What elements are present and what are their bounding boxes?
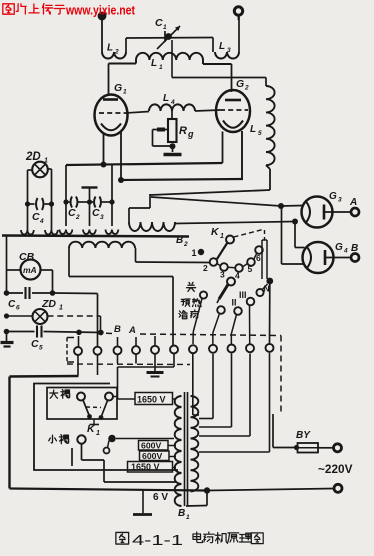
K1 dashed link bbox=[234, 230, 265, 241]
label C6 bbox=[8, 299, 20, 312]
wire top feed to L5 bbox=[172, 78, 266, 87]
wire III to terminal 10 bbox=[249, 305, 251, 344]
high-range pole B bbox=[105, 393, 113, 401]
inductor L3 bbox=[215, 15, 239, 59]
label II bbox=[232, 298, 237, 308]
triode G1 envelope bbox=[95, 95, 128, 136]
B1 secondary taps bbox=[168, 399, 176, 468]
node N junction bbox=[266, 278, 273, 285]
meter leads bbox=[7, 270, 53, 291]
svg-text:1650 V: 1650 V bbox=[131, 462, 160, 472]
wire B2 lower right lead bbox=[136, 248, 210, 263]
terminal 2 bbox=[94, 347, 102, 355]
label 220V bbox=[318, 462, 353, 476]
label N bbox=[264, 284, 270, 294]
wire left main down bbox=[10, 376, 79, 489]
label 6V bbox=[153, 492, 168, 503]
svg-text:4: 4 bbox=[235, 271, 240, 281]
label L1 bbox=[151, 58, 163, 71]
K1 wiper pivot bbox=[226, 236, 234, 244]
svg-text:6 V: 6 V bbox=[153, 492, 168, 503]
capacitor C6 bbox=[7, 287, 53, 299]
svg-text:mA: mA bbox=[23, 265, 37, 275]
svg-text:5: 5 bbox=[248, 264, 253, 274]
wire antenna top bbox=[126, 37, 213, 40]
label L5 bbox=[250, 124, 262, 137]
svg-text:4: 4 bbox=[170, 99, 175, 106]
label low-range bbox=[49, 435, 69, 444]
svg-text:C: C bbox=[155, 17, 163, 29]
antenna terminal (left) bbox=[98, 12, 107, 52]
svg-text:B: B bbox=[114, 324, 121, 335]
mains terminal upper bbox=[334, 444, 342, 452]
terminal 1 bbox=[74, 347, 82, 355]
G3 lead bbox=[324, 211, 351, 213]
transformer B1 core bbox=[185, 392, 188, 506]
capacitor C3 bbox=[90, 197, 113, 208]
G1 cathode lead right bbox=[120, 131, 122, 180]
wire treat to terminal 8 bbox=[213, 314, 220, 345]
high-range pole A bbox=[77, 393, 85, 401]
svg-text:ZD: ZD bbox=[41, 298, 56, 310]
contact 3 bbox=[220, 263, 228, 279]
wire node to G3 bbox=[151, 197, 281, 206]
wire filament rail upper bbox=[66, 163, 223, 165]
low-range pole B bbox=[108, 435, 174, 443]
fuse right lead bbox=[318, 447, 333, 449]
G1 grid (dashed) bbox=[99, 112, 126, 114]
svg-text:A: A bbox=[349, 197, 357, 208]
wire B2 upper to anode line bbox=[175, 222, 295, 224]
grounded shield bar bbox=[82, 188, 98, 203]
contact III bbox=[247, 298, 255, 306]
svg-text:2: 2 bbox=[75, 214, 80, 221]
terminal 3 bbox=[114, 346, 122, 354]
label B2 bbox=[176, 235, 188, 248]
node C4 right bbox=[49, 201, 54, 206]
node meter right bbox=[50, 290, 56, 296]
svg-text:2: 2 bbox=[114, 49, 119, 56]
wire N2 link bbox=[262, 284, 268, 290]
label G3 bbox=[329, 191, 342, 204]
C4 loop top bbox=[28, 169, 52, 170]
svg-text:1: 1 bbox=[163, 24, 167, 31]
contact N2 bbox=[256, 289, 263, 296]
wire junction down to G4 top bbox=[295, 222, 305, 248]
label preheat bbox=[181, 298, 201, 306]
capacitor C1 (variable) bbox=[157, 26, 180, 49]
wire B2 lower left lead bbox=[69, 248, 173, 277]
resistor Rg bbox=[168, 119, 177, 142]
high-range pole B arm bbox=[99, 401, 108, 420]
label off (guan) bbox=[187, 282, 196, 291]
inductor L4 bbox=[149, 104, 195, 111]
label L3 bbox=[219, 41, 231, 54]
terminal B bbox=[351, 254, 359, 262]
svg-text:5: 5 bbox=[258, 130, 262, 137]
wire junction down to G4 bbox=[282, 206, 304, 264]
label K1 (power) bbox=[87, 423, 100, 437]
capacitor C5 bbox=[7, 326, 102, 338]
svg-text:C: C bbox=[68, 207, 76, 219]
terminal 6 stem bbox=[118, 354, 175, 399]
node bottom rail junction bbox=[204, 487, 210, 493]
label K1 bbox=[211, 226, 224, 240]
terminal 10 stem bbox=[199, 354, 250, 437]
terminal 4 bbox=[132, 346, 140, 354]
dashed lower line bbox=[67, 363, 190, 366]
node G3 feed junction bbox=[278, 203, 284, 209]
svg-text:600V: 600V bbox=[141, 441, 161, 451]
svg-text:1: 1 bbox=[96, 430, 100, 437]
ground (terminal 5) bbox=[147, 373, 164, 377]
node anode line junction bbox=[292, 219, 298, 225]
C2 loop left side bbox=[65, 165, 67, 202]
label L4 bbox=[163, 93, 175, 106]
label Rg bbox=[179, 125, 194, 139]
svg-text:3: 3 bbox=[227, 47, 231, 54]
label B bbox=[114, 324, 121, 335]
contact 6 bbox=[255, 246, 263, 263]
wire corner down to terminal 2 bbox=[97, 294, 99, 347]
indicator lamp 2D1 bbox=[32, 162, 48, 178]
wire pole B to HV box bbox=[113, 397, 135, 400]
svg-text:II: II bbox=[232, 298, 237, 308]
terminal 11 bbox=[266, 344, 274, 352]
box 1650V (2) bbox=[128, 462, 173, 473]
wire L5 bottom bbox=[150, 165, 270, 195]
contact chain wires bbox=[217, 253, 257, 267]
dashed bracket bbox=[67, 338, 74, 363]
triode G2 envelope bbox=[216, 90, 250, 132]
deck2 wiper pivot bbox=[227, 278, 235, 286]
terminal 9 stem bbox=[199, 354, 232, 428]
box 600V (2) bbox=[140, 451, 170, 461]
svg-text:B: B bbox=[176, 235, 183, 246]
svg-text:1: 1 bbox=[159, 64, 163, 71]
svg-text:2: 2 bbox=[244, 85, 249, 92]
contact 2 bbox=[203, 258, 217, 273]
label G4 bbox=[335, 242, 348, 255]
wire HT rail bbox=[2, 236, 189, 237]
svg-text:L: L bbox=[250, 124, 256, 135]
mains terminal lower bbox=[334, 484, 342, 492]
label III bbox=[239, 290, 247, 300]
svg-text:1: 1 bbox=[59, 305, 63, 312]
G1 cathode lead left bbox=[103, 133, 105, 165]
high-range pole A arm bbox=[83, 400, 99, 425]
wire II to terminal 9 bbox=[231, 315, 236, 345]
svg-text:L: L bbox=[107, 43, 113, 54]
low-range pole A bbox=[77, 435, 85, 443]
node C2 left bbox=[63, 199, 68, 204]
G4 anode bar bbox=[324, 250, 327, 265]
label C5 bbox=[31, 338, 43, 352]
svg-text:1: 1 bbox=[192, 248, 197, 258]
svg-text:www.yixie.net: www.yixie.net bbox=[65, 4, 136, 18]
svg-text:g: g bbox=[187, 129, 194, 139]
svg-text:B: B bbox=[351, 243, 358, 254]
G4 lead bbox=[325, 257, 351, 259]
svg-text:BY: BY bbox=[296, 430, 311, 441]
switch unit box bbox=[34, 384, 178, 471]
deck2 wiper arm bbox=[217, 285, 228, 304]
node C3 right bbox=[109, 199, 114, 204]
svg-text:G: G bbox=[329, 191, 337, 202]
terminal 2 stem bbox=[97, 355, 99, 376]
inductor L2 bbox=[102, 38, 126, 59]
label ZD1 bbox=[41, 298, 63, 312]
terminal 7 bbox=[189, 345, 197, 353]
svg-text:G: G bbox=[335, 242, 343, 253]
transformer B2 lower winding bbox=[69, 242, 135, 248]
C2 loop bottom bbox=[59, 202, 72, 234]
wire to fuse bbox=[273, 414, 296, 448]
terminal 3 stem bbox=[117, 337, 119, 364]
svg-text:5: 5 bbox=[39, 345, 43, 352]
G3 anode bar bbox=[323, 205, 326, 220]
svg-text:G: G bbox=[114, 82, 122, 94]
label 2D1 bbox=[25, 151, 48, 165]
wire node to B2 upper winding bbox=[129, 194, 150, 222]
terminal 7 stem bbox=[193, 354, 199, 415]
indicator lamp ZD1 bbox=[33, 309, 48, 324]
wire rail to meter loop bbox=[6, 236, 8, 293]
transformer B1 secondary bbox=[175, 396, 182, 506]
svg-text:C: C bbox=[31, 338, 39, 350]
gang dashes bbox=[86, 406, 101, 409]
label B (terminal) bbox=[351, 243, 358, 254]
svg-text:A: A bbox=[128, 325, 136, 336]
node C5 left bbox=[4, 329, 10, 335]
label C1 bbox=[155, 17, 167, 31]
svg-text:B: B bbox=[178, 508, 185, 519]
svg-text:1650 V: 1650 V bbox=[137, 395, 166, 405]
svg-text:R: R bbox=[179, 125, 187, 137]
label L2 bbox=[107, 43, 119, 56]
output terminal (right) bbox=[234, 7, 242, 20]
contact 4 bbox=[235, 264, 243, 280]
box 600V (1) bbox=[139, 441, 169, 451]
electrode tube G3 bbox=[302, 197, 333, 228]
label A bbox=[349, 197, 357, 208]
label C4 bbox=[32, 211, 44, 225]
G2 cathode arc bbox=[223, 121, 243, 128]
svg-text:4: 4 bbox=[39, 218, 44, 225]
svg-text:600V: 600V bbox=[142, 451, 162, 461]
transformer B2 upper winding bbox=[129, 222, 175, 231]
label treat bbox=[179, 310, 199, 319]
label A bbox=[128, 325, 136, 336]
terminal 9 bbox=[228, 345, 236, 353]
terminal 11 stem bbox=[199, 353, 270, 452]
wire L4 tap to Rg bbox=[171, 111, 173, 119]
node G1 cathode-left junction bbox=[101, 162, 107, 168]
capacitor C4 bbox=[28, 198, 52, 210]
meter mA bbox=[21, 260, 41, 280]
svg-text:C: C bbox=[8, 299, 16, 310]
node C2-C3 mid bbox=[87, 199, 92, 204]
node meter left bbox=[4, 290, 10, 296]
wire to L3 bbox=[212, 38, 214, 53]
node G1 cathode-right junction bbox=[118, 177, 124, 183]
svg-text:L: L bbox=[219, 41, 225, 52]
G2 cathode lead left bbox=[222, 132, 224, 164]
G1 cathode arc bbox=[101, 124, 121, 131]
wire junction to G3 bbox=[281, 205, 303, 208]
terminal 5 bbox=[151, 346, 159, 354]
watermark text bbox=[3, 4, 136, 18]
Rg bypass loop top bbox=[153, 128, 169, 132]
dashed panel line bbox=[106, 333, 281, 335]
C4 loop sides bbox=[28, 169, 52, 228]
G3 cathode arc bbox=[306, 202, 310, 223]
node C4 left bbox=[25, 201, 30, 206]
wire low-range down bbox=[82, 444, 177, 482]
G2 plate bbox=[225, 99, 241, 102]
K1 wiper arm bbox=[217, 243, 228, 260]
terminal 1 stem bbox=[77, 336, 80, 376]
C3 loop bottoms bbox=[83, 202, 118, 234]
inductor L1 bbox=[136, 53, 203, 60]
HV box 1650V bbox=[135, 393, 173, 405]
label CB bbox=[19, 251, 35, 263]
svg-text:1: 1 bbox=[220, 233, 224, 240]
G2 cathode lead right bbox=[241, 131, 243, 179]
caption bbox=[116, 532, 263, 549]
terminal 4 stem bbox=[135, 337, 137, 364]
wire filament rail lower bbox=[121, 179, 243, 180]
node ZD1 left bbox=[4, 313, 9, 318]
svg-text:1: 1 bbox=[123, 89, 127, 96]
ground (6V winding) bbox=[133, 489, 152, 515]
svg-text:6: 6 bbox=[16, 305, 20, 312]
ground (Rg) bbox=[164, 153, 182, 156]
wire L4 to G2 grid bbox=[195, 110, 220, 111]
range switch sub-box bbox=[47, 388, 117, 420]
stray wire bbox=[71, 448, 73, 466]
C3 loop right side bbox=[111, 165, 113, 202]
wire C6 line to corner bbox=[53, 292, 98, 295]
wire C1 tap down bbox=[171, 40, 173, 78]
label G1 bbox=[114, 82, 127, 96]
terminal 8 stem bbox=[199, 354, 213, 419]
wire L1 right to G2 plate bbox=[203, 60, 232, 92]
G2 grid (dashed) bbox=[220, 109, 248, 111]
svg-text:G: G bbox=[236, 78, 244, 90]
wire Rg to ground bbox=[172, 146, 174, 152]
svg-text:2: 2 bbox=[183, 241, 188, 248]
svg-text:~220V: ~220V bbox=[318, 462, 353, 476]
terminal 5 stem bbox=[154, 336, 156, 371]
label B1 bbox=[178, 508, 190, 521]
wire down to terminal 6 bbox=[172, 277, 174, 346]
label G2 bbox=[236, 78, 249, 92]
node Rg bottom junction bbox=[170, 143, 176, 149]
switch wafer outline bbox=[262, 240, 267, 279]
ground (meter branch) bbox=[1, 331, 14, 347]
wire off to terminal 7 bbox=[193, 299, 202, 345]
label C3 bbox=[92, 207, 104, 221]
transformer B1 primary bbox=[191, 396, 199, 491]
wire bottom rail bbox=[10, 489, 334, 491]
svg-text:III: III bbox=[239, 290, 247, 300]
dashed panel corner right bbox=[280, 336, 282, 414]
wire N to terminal 11 bbox=[269, 284, 271, 345]
svg-text:L: L bbox=[151, 58, 157, 69]
node fuse left bbox=[294, 445, 299, 450]
Rg bypass loop bbox=[153, 130, 173, 147]
terminal 8 bbox=[209, 345, 217, 353]
label BY bbox=[296, 430, 311, 441]
electrode tube G4 bbox=[303, 242, 334, 273]
inductor L5 bbox=[266, 86, 275, 165]
C4 loop bottom bumps bbox=[21, 228, 58, 235]
node C5 right bbox=[76, 330, 104, 336]
wire G1 grid to L4 bbox=[126, 112, 149, 114]
contact 5 bbox=[247, 258, 255, 274]
svg-text:L: L bbox=[163, 93, 169, 104]
svg-text:3: 3 bbox=[220, 270, 225, 280]
label high-range bbox=[50, 390, 70, 399]
svg-text:C: C bbox=[32, 211, 40, 223]
contact off bbox=[200, 291, 207, 298]
svg-text:C: C bbox=[92, 207, 100, 219]
svg-text:1: 1 bbox=[186, 514, 190, 521]
svg-text:4-1-1: 4-1-1 bbox=[132, 532, 183, 549]
capacitor C2 bbox=[66, 197, 90, 208]
terminal A bbox=[351, 208, 359, 216]
svg-text:2: 2 bbox=[203, 263, 208, 273]
low-range aux contact bbox=[104, 441, 110, 454]
terminal 10 bbox=[246, 344, 254, 352]
contact 1 bbox=[192, 248, 205, 258]
G4 cathode arc bbox=[307, 247, 311, 268]
contact treat bbox=[217, 306, 225, 314]
B1 bottom lead bbox=[186, 491, 207, 506]
ZD1 right lead (dashed) bbox=[48, 316, 101, 331]
svg-text:3: 3 bbox=[338, 197, 342, 204]
svg-text:4: 4 bbox=[343, 248, 348, 255]
fuse BY bbox=[298, 443, 319, 453]
wire L1 left to G1 plate bbox=[109, 60, 137, 96]
ZD1 left lead bbox=[7, 315, 33, 317]
svg-text:3: 3 bbox=[100, 214, 104, 221]
terminal 6 bbox=[170, 346, 178, 354]
contact II bbox=[234, 307, 242, 315]
G1 plate bbox=[103, 98, 118, 101]
label C2 bbox=[68, 207, 80, 221]
